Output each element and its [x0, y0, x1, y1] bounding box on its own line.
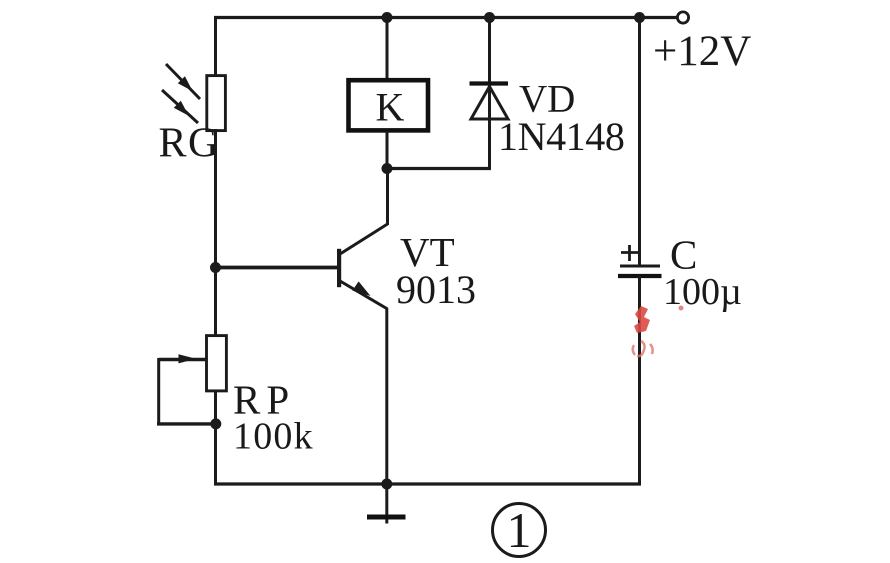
- node: emitter / ground junction: [381, 479, 392, 490]
- relay K: [349, 80, 429, 130]
- node: K/diode/collector junction: [382, 163, 393, 174]
- transistor VT (NPN 9013): [337, 224, 388, 309]
- wire: K bottom to junction: [386, 131, 389, 170]
- node: top rail / right rail: [634, 12, 645, 23]
- terminal: +12V input: [677, 12, 688, 23]
- label 9013: [396, 267, 476, 312]
- node: RP wiper junction: [210, 418, 221, 429]
- wire: left rail from top rail to RG: [214, 16, 217, 77]
- red mark (scan artifact): [633, 306, 684, 357]
- node: top rail / diode wire: [484, 12, 495, 23]
- label 100µ: [663, 271, 742, 313]
- wire: emitter to bottom rail: [385, 308, 388, 485]
- wire: base wire to transistor: [216, 266, 340, 270]
- potentiometer RP 100k: [157, 336, 226, 424]
- node: base junction: [210, 262, 221, 273]
- label 100k: [233, 416, 314, 458]
- svg-text:9013: 9013: [396, 267, 476, 312]
- photoresistor RG: [162, 64, 225, 131]
- label VD: [519, 78, 575, 121]
- label VT: [400, 229, 455, 275]
- svg-text:K: K: [376, 85, 405, 130]
- wire: right rail upper: [638, 16, 641, 266]
- ground: [367, 484, 406, 524]
- label C: [670, 232, 697, 278]
- svg-text:100k: 100k: [233, 416, 314, 458]
- wire: collector to K junction: [386, 167, 389, 225]
- node: top rail / K wire: [382, 12, 393, 23]
- wire: top rail to relay K: [386, 16, 389, 80]
- svg-text:100µ: 100µ: [663, 271, 742, 313]
- wire: top supply rail: [214, 16, 677, 19]
- label +12V: [653, 28, 751, 75]
- label 1N4148: [498, 114, 625, 159]
- svg-text:1: 1: [507, 502, 532, 558]
- capacitor C (electrolytic, polarity mark): [618, 245, 662, 276]
- wire: bottom rail: [214, 482, 641, 485]
- wire: left rail RG to RP: [214, 129, 217, 337]
- label RP: [233, 377, 295, 423]
- label RG: [159, 121, 220, 167]
- wire: left rail lower (RP to bottom rail): [214, 389, 217, 486]
- wire: junction to diode anode leg: [387, 167, 491, 170]
- diode VD 1N4148: [470, 84, 509, 120]
- wire: right rail lower: [638, 276, 641, 486]
- figure number 1 (circled): [493, 502, 546, 558]
- svg-text:RG: RG: [159, 121, 220, 167]
- wire: diode cathode leg to top rail: [488, 16, 491, 169]
- svg-text:1N4148: 1N4148: [498, 114, 625, 159]
- svg-text:+12V: +12V: [653, 28, 751, 75]
